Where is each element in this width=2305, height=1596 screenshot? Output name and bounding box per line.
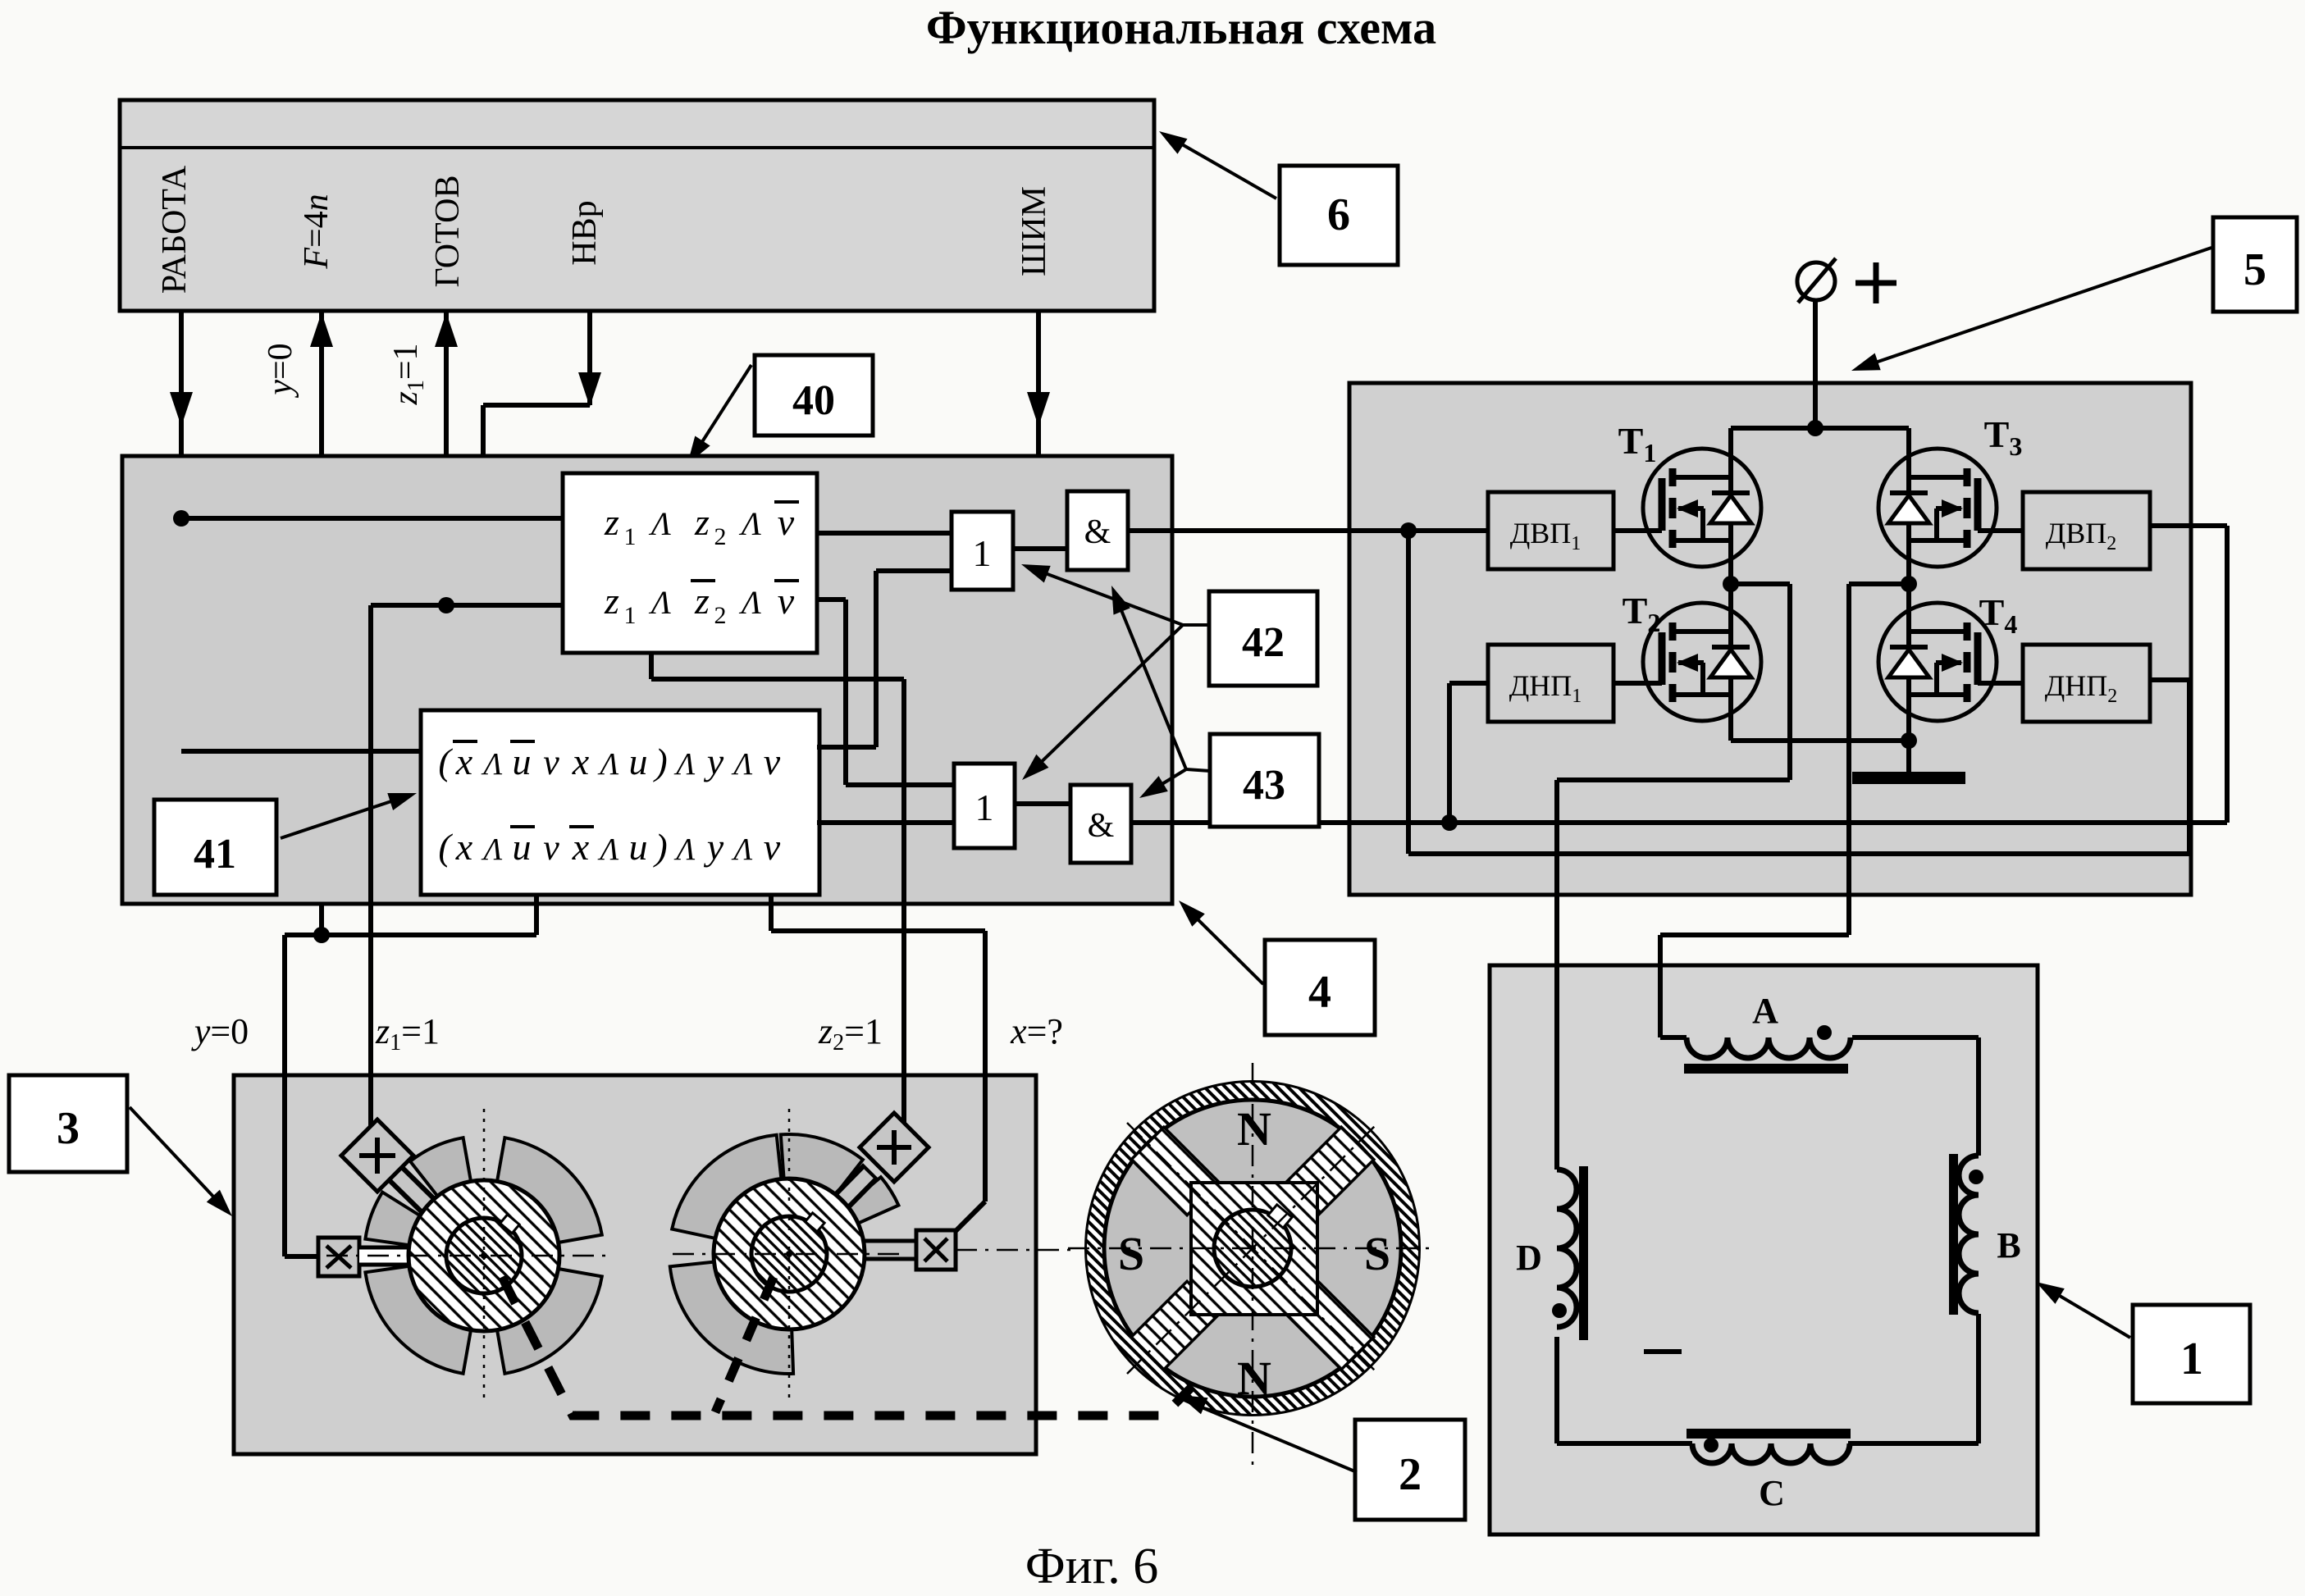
block 4 logic unit bbox=[122, 456, 1172, 904]
arrow 40 to box 40 bbox=[691, 365, 751, 458]
svg-text:40: 40 bbox=[792, 377, 835, 424]
svg-text:z: z bbox=[604, 501, 619, 543]
svg-text:(: ( bbox=[438, 826, 453, 868]
block 6 divider bbox=[120, 146, 1154, 149]
svg-text:): ) bbox=[652, 741, 667, 782]
svg-text:y=0: y=0 bbox=[191, 1011, 249, 1051]
svg-text:Λ: Λ bbox=[732, 747, 753, 782]
wire upper control net (AND1 out to ДВП1 / ДНП2) bbox=[1128, 528, 1488, 533]
driver ДВП2 bbox=[2023, 492, 2150, 569]
wire phase output 1 (T1/T2 mid to winding D) bbox=[1731, 581, 1790, 586]
svg-text:v: v bbox=[764, 826, 781, 868]
vertical bridge column left (T1/T2 drain-source) bbox=[1728, 428, 1733, 741]
wire box41 out1 to OR1 bbox=[817, 745, 876, 750]
sensor 1 plus contact diamond bbox=[341, 1119, 413, 1192]
svg-text:1: 1 bbox=[2180, 1334, 2203, 1384]
sensor 1 rotor disc (hatched) bbox=[409, 1180, 559, 1331]
svg-text:u: u bbox=[629, 826, 648, 868]
block 3 sensor unit bbox=[234, 1075, 1036, 1454]
svg-text:u: u bbox=[513, 826, 532, 868]
formula z1^z2^~v bbox=[604, 501, 799, 550]
arrow 1 to block 1 bbox=[2042, 1285, 2130, 1338]
wire phase 1 feed inside block 1 (to winding D) bbox=[1554, 965, 1559, 1170]
svg-text:Λ: Λ bbox=[482, 832, 503, 867]
sensor 2 minus contact box bbox=[916, 1230, 956, 1270]
OR gate 1 (upper) bbox=[952, 512, 1013, 590]
wire B to C bbox=[1976, 1314, 1981, 1443]
rotor shaft circle bbox=[1214, 1210, 1291, 1287]
svg-text:x: x bbox=[455, 826, 473, 868]
svg-text:y: y bbox=[704, 741, 724, 782]
svg-text:Λ: Λ bbox=[598, 832, 619, 867]
svg-text:Λ: Λ bbox=[674, 747, 696, 782]
svg-text:u: u bbox=[513, 741, 532, 782]
svg-text:43: 43 bbox=[1243, 762, 1285, 809]
label box 43 bbox=[1210, 734, 1319, 827]
ground bbox=[1906, 741, 1911, 772]
rotor centerlines dash-dot bbox=[1252, 1063, 1254, 1466]
svg-text:4: 4 bbox=[1308, 967, 1331, 1018]
svg-text:Λ: Λ bbox=[732, 832, 753, 867]
rotor inner disc bbox=[1104, 1100, 1401, 1397]
svg-text:Λ: Λ bbox=[738, 505, 761, 542]
svg-text:z: z bbox=[694, 580, 710, 622]
node y junction bbox=[313, 927, 330, 943]
wire z1 to bar bbox=[444, 311, 449, 605]
svg-text:y: y bbox=[704, 826, 724, 868]
OR gate 1 (lower) bbox=[954, 764, 1015, 848]
label box 3 bbox=[9, 1075, 127, 1172]
wire y=0 from sensor 1 to box41 bbox=[534, 895, 539, 935]
svg-text:x: x bbox=[572, 741, 590, 782]
wire C to D bbox=[1557, 1441, 1692, 1446]
svg-text:B: B bbox=[1997, 1225, 2020, 1265]
svg-text:v: v bbox=[778, 501, 795, 543]
svg-text:5: 5 bbox=[2243, 244, 2266, 295]
top supply rail bbox=[1731, 426, 1909, 431]
box 41 (logic formulas x,u,y,v) bbox=[421, 710, 819, 895]
label box 41 bbox=[154, 800, 276, 895]
svg-text:Λ: Λ bbox=[648, 505, 671, 542]
sensor 1 slot stem bbox=[359, 1247, 410, 1265]
block 5 power bridge bbox=[1349, 383, 2191, 895]
svg-text:Функциональная схема: Функциональная схема bbox=[926, 1, 1436, 54]
formula (x^~u v ~x^u)^y^v bbox=[438, 826, 780, 868]
dashed shaft coupling line bbox=[502, 1277, 1191, 1416]
svg-text:z1=1: z1=1 bbox=[387, 343, 429, 405]
arrow 4 to block 4 corner bbox=[1184, 905, 1263, 984]
svg-text:v: v bbox=[764, 741, 781, 782]
wire A to B bbox=[1852, 1035, 1979, 1040]
formula z1^~z2^~v bbox=[604, 580, 799, 629]
svg-text:ДВП1: ДВП1 bbox=[1510, 517, 1582, 554]
arrow 6 to block 6 bbox=[1165, 135, 1276, 198]
svg-text:(: ( bbox=[438, 741, 453, 782]
svg-text:2: 2 bbox=[714, 523, 727, 550]
transistor T4 bbox=[1878, 603, 1997, 721]
box 40 (logic formulas z) bbox=[563, 473, 817, 653]
wire z1 inside block 3 bbox=[368, 1075, 373, 1136]
arrows 43 to AND gates bbox=[1186, 769, 1210, 771]
node ШИМ junction bbox=[1030, 501, 1047, 518]
driver ДНП2 bbox=[2023, 645, 2150, 722]
arrow 5 to block 5 bbox=[1859, 248, 2211, 368]
sensor 1 notch bbox=[500, 1215, 520, 1233]
label box 4 bbox=[1265, 940, 1375, 1035]
rotor shaft keyway notch bbox=[1268, 1205, 1292, 1228]
node z1 junction bbox=[438, 597, 454, 613]
label box 1 bbox=[2133, 1305, 2250, 1403]
svg-text:2: 2 bbox=[1399, 1449, 1422, 1500]
svg-text:Λ: Λ bbox=[482, 747, 503, 782]
wire z2 inside block 3 bbox=[901, 1075, 906, 1130]
driver ДНП1 bbox=[1488, 645, 1613, 722]
svg-text:ГОТОВ: ГОТОВ bbox=[429, 175, 467, 287]
node T1-T2 midpoint bbox=[1723, 576, 1739, 592]
svg-text:z2=1: z2=1 bbox=[818, 1011, 883, 1056]
svg-text:x=?: x=? bbox=[1010, 1011, 1063, 1051]
wire РАБОТА down bbox=[179, 311, 184, 751]
wire z1 from sensor 1 bbox=[368, 605, 373, 1077]
svg-text:ДНП1: ДНП1 bbox=[1509, 669, 1582, 707]
rotor 2 outer rim (hatched) bbox=[1087, 1083, 1418, 1414]
arrow 41 to box bbox=[281, 796, 409, 838]
svg-text:y=0: y=0 bbox=[262, 343, 299, 398]
svg-text:N: N bbox=[1237, 1102, 1271, 1156]
svg-text:S: S bbox=[1118, 1227, 1144, 1280]
wire phase 2 feed inside block 1 (to winding A) bbox=[1658, 965, 1663, 1037]
power supply + terminal bbox=[1813, 300, 1818, 428]
sensor 2 plus stem bbox=[821, 1171, 871, 1222]
svg-text:Λ: Λ bbox=[738, 584, 761, 621]
AND gate & (lower) bbox=[1070, 785, 1131, 863]
sensor 2 notch bbox=[806, 1213, 825, 1232]
svg-text:z1=1: z1=1 bbox=[375, 1011, 440, 1056]
wire РАБОТА to box 40 bbox=[181, 516, 563, 521]
rotor central square (magnet) bbox=[1191, 1183, 1317, 1315]
transistor T2 bbox=[1643, 603, 1761, 721]
svg-text:z: z bbox=[604, 580, 619, 622]
wire box40 out1 to OR1 bbox=[817, 531, 952, 536]
node winding C polarity dot bbox=[1704, 1438, 1718, 1452]
wire phase output 2 (T3/T4 mid to winding A) bbox=[1849, 581, 1909, 586]
svg-text:&: & bbox=[1088, 807, 1115, 845]
svg-text:N: N bbox=[1237, 1352, 1271, 1405]
svg-text:1: 1 bbox=[624, 602, 637, 629]
svg-text:ШИМ: ШИМ bbox=[1016, 186, 1053, 276]
formula (~x^~u v x^u)^y^v bbox=[438, 741, 780, 782]
svg-text:1: 1 bbox=[973, 532, 992, 574]
svg-text:6: 6 bbox=[1327, 189, 1350, 240]
wire НВр down bbox=[587, 311, 592, 405]
arrow 2 to rotor bbox=[1186, 1401, 1357, 1472]
svg-text:Фиг. 6: Фиг. 6 bbox=[1025, 1539, 1159, 1594]
svg-text:F=4n: F=4n bbox=[298, 194, 335, 269]
sensor 2 centerlines bbox=[788, 1109, 791, 1402]
wire РАБОТА to box 41 bbox=[181, 749, 421, 754]
node bottom rail / ground tap bbox=[1731, 738, 1909, 743]
winding D bbox=[1557, 1170, 1577, 1327]
svg-text:РАБОТА: РАБОТА bbox=[156, 165, 194, 294]
wire box41 out2 to OR2 bbox=[817, 820, 954, 825]
wire lower control net (AND2 out to ДНП1 / ДВП2) bbox=[1131, 820, 2227, 825]
wire box40 out2 to OR2 bbox=[817, 597, 846, 602]
node winding D polarity dot bbox=[1552, 1303, 1567, 1318]
label box 5 bbox=[2213, 217, 2297, 312]
block 1 stator windings bbox=[1490, 965, 2038, 1534]
svg-text:2: 2 bbox=[714, 602, 727, 629]
wire x=? inside block 3 bbox=[983, 1075, 988, 1202]
transistor T3 bbox=[1878, 449, 1997, 567]
svg-text:1: 1 bbox=[624, 523, 637, 550]
sensor 2 slot stem bbox=[865, 1241, 916, 1259]
block 6 control unit bar bbox=[120, 100, 1154, 311]
node supply junction bbox=[1807, 420, 1823, 436]
sensor 2 plus contact diamond bbox=[860, 1113, 929, 1182]
sensor 2 stator arcs bbox=[847, 1177, 899, 1223]
wire gate stubs bbox=[1613, 528, 1662, 533]
winding A bbox=[1687, 1037, 1851, 1058]
sensor 1 plus stem bbox=[387, 1165, 437, 1215]
winding C bbox=[1692, 1443, 1850, 1463]
svg-text:): ) bbox=[652, 826, 667, 868]
label box 6 bbox=[1280, 166, 1398, 265]
svg-text:A: A bbox=[1752, 991, 1778, 1031]
svg-text:z: z bbox=[694, 501, 710, 543]
node РАБОТА junction bbox=[173, 510, 189, 527]
svg-text:v: v bbox=[543, 828, 559, 868]
svg-text:ДНП2: ДНП2 bbox=[2045, 669, 2118, 707]
svg-text:42: 42 bbox=[1242, 619, 1285, 666]
svg-text:Λ: Λ bbox=[674, 832, 696, 867]
wire OR1 to AND1 bbox=[1013, 546, 1067, 551]
AND gate & (upper) bbox=[1067, 491, 1128, 570]
svg-text:1: 1 bbox=[975, 787, 994, 828]
rotor diagonal flux bars bbox=[1285, 1127, 1374, 1215]
sensor 1 minus contact box bbox=[318, 1238, 359, 1276]
svg-text:v: v bbox=[543, 742, 559, 782]
wire z1 into box 40 bbox=[371, 603, 563, 608]
wire x=? from sensor 2 to box41 bbox=[769, 895, 774, 931]
svg-text:x: x bbox=[455, 741, 473, 782]
scan artifact dash bbox=[1644, 1349, 1682, 1354]
label box 2 bbox=[1355, 1420, 1465, 1520]
svg-text:&: & bbox=[1084, 513, 1111, 551]
svg-text:u: u bbox=[629, 741, 648, 782]
driver ДВП1 bbox=[1488, 492, 1613, 569]
label box 40 bbox=[755, 355, 873, 435]
centerline link to rotor bbox=[956, 1249, 1075, 1252]
vertical bridge column right (T3/T4) bbox=[1906, 428, 1911, 741]
wire y=0 / F=4n up bbox=[319, 311, 324, 935]
wire ШИМ down bbox=[1036, 311, 1041, 845]
svg-text:Λ: Λ bbox=[598, 747, 619, 782]
svg-text:x: x bbox=[572, 826, 590, 868]
transistor T1 bbox=[1643, 449, 1761, 567]
svg-text:3: 3 bbox=[57, 1103, 80, 1154]
node winding B polarity dot bbox=[1969, 1170, 1983, 1184]
sensor 2 rotor disc (hatched) bbox=[714, 1179, 865, 1329]
arrows 42 to OR gates bbox=[1183, 623, 1209, 627]
wire y=0 inside block 3 bbox=[282, 1075, 287, 1256]
svg-text:v: v bbox=[778, 580, 795, 622]
svg-text:Λ: Λ bbox=[648, 584, 671, 621]
svg-text:D: D bbox=[1516, 1238, 1542, 1278]
sensor 1 stator arcs bbox=[497, 1138, 602, 1243]
svg-text:C: C bbox=[1759, 1473, 1785, 1513]
winding B bbox=[1959, 1156, 1979, 1313]
svg-text:S: S bbox=[1364, 1227, 1390, 1280]
arrow 3 to block 3 bbox=[130, 1107, 226, 1211]
node T3-T4 midpoint bbox=[1901, 576, 1917, 592]
wire OR2 to AND2 bbox=[1015, 801, 1070, 806]
svg-text:НВр: НВр bbox=[566, 200, 604, 265]
sensor 1 centerlines bbox=[483, 1109, 486, 1404]
node winding A polarity dot bbox=[1817, 1025, 1832, 1040]
label box 42 bbox=[1209, 591, 1317, 686]
svg-text:41: 41 bbox=[194, 831, 236, 878]
wire z2 from sensor 2 to box 40 bbox=[649, 653, 654, 679]
svg-text:ДВП2: ДВП2 bbox=[2046, 517, 2117, 554]
